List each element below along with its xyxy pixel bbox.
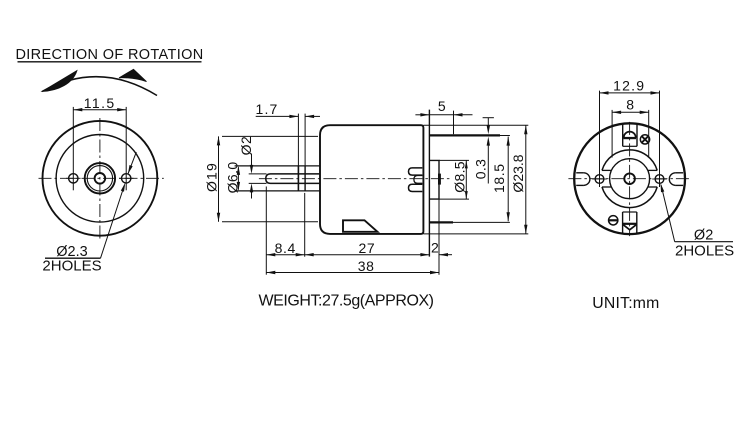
svg-text:2HOLES: 2HOLES — [675, 243, 734, 260]
washer/bushing boundary — [304, 166, 306, 191]
left notch bottom line — [576, 184, 583, 186]
Ø19 dim line — [218, 136, 220, 221]
bottom brush base bar — [623, 223, 637, 225]
svg-text:8: 8 — [626, 97, 634, 113]
upper band right end face — [648, 169, 657, 171]
bottom slot top edge — [623, 211, 637, 213]
0.3 upper arrow (down) — [487, 125, 490, 134]
rear Ø2 leader arrow — [661, 183, 665, 192]
rotation arrow arc — [42, 77, 157, 96]
1.7 right tail — [305, 115, 320, 117]
0.3 upper leader — [487, 118, 489, 127]
Ø19 bottom extension — [222, 221, 318, 223]
svg-text:UNIT:mm: UNIT:mm — [592, 295, 659, 312]
8 dim line — [612, 111, 649, 113]
svg-text:0.3: 0.3 — [473, 159, 489, 179]
right hole crosshair — [119, 177, 134, 179]
8 right extension — [648, 110, 650, 158]
front right mounting hole — [122, 174, 131, 183]
left notch arc — [584, 173, 590, 186]
top terminal extension thin — [500, 135, 510, 137]
top brush base bar — [623, 137, 636, 139]
Ø8.5 dim line — [465, 160, 467, 199]
extension line boss right edge down — [438, 199, 440, 275]
lower band right end face — [648, 186, 657, 188]
2 arrow — [439, 253, 448, 256]
rear clip bottom bump — [409, 184, 423, 191]
front view outer circle — [43, 121, 158, 236]
12.9 right extension through hole — [659, 91, 661, 187]
12.9 dim line — [600, 92, 660, 94]
Ø2 extension bottom — [249, 182, 267, 184]
Ø2.3 label underline — [45, 257, 101, 259]
rotation arrow left head — [42, 71, 77, 92]
svg-text:WEIGHT:27.5g(APPROX): WEIGHT:27.5g(APPROX) — [259, 292, 434, 309]
1.7 right arrow — [305, 115, 314, 118]
top slot bottom edge — [623, 145, 637, 147]
18.5 bottom arrow — [507, 212, 510, 221]
Ø2 extension top — [249, 173, 267, 175]
extension shaft tip down — [265, 187, 267, 275]
Ø2.3 leader line upper — [128, 152, 136, 173]
Ø23.8 top arrow — [524, 125, 527, 134]
left hole crosshair — [66, 177, 81, 179]
vent slot trapezoid — [343, 220, 378, 232]
rear Ø2 label underline — [675, 241, 733, 243]
Ø2 upper arrow (down) — [250, 165, 253, 174]
Ø6 top arrow — [237, 166, 240, 175]
bushing bottom line + Ø6 extension — [235, 190, 320, 192]
8.4 left arrow — [266, 253, 275, 256]
hub outer circle — [85, 163, 115, 193]
8.4 right arrow — [296, 253, 305, 256]
5 right arrow — [454, 113, 463, 116]
18.5 top arrow — [507, 137, 510, 146]
svg-text:Ø19: Ø19 — [203, 162, 219, 192]
front view vertical centerline — [99, 118, 101, 239]
svg-text:2HOLES: 2HOLES — [42, 258, 101, 275]
Ø2.3 upper leader arrow — [128, 165, 133, 174]
bottom tab thick — [429, 221, 453, 223]
12.9 left arrow — [600, 91, 609, 94]
rotation arrow right head — [119, 69, 147, 81]
left notch top line — [576, 172, 583, 174]
lower band left end face — [602, 186, 611, 188]
shaft circle — [95, 173, 106, 184]
hub inner ring — [87, 166, 112, 191]
rear view vertical centerline — [629, 122, 631, 236]
dim line 8.4 and 27 — [266, 254, 429, 256]
dim 11.5 line — [73, 109, 126, 111]
svg-text:38: 38 — [358, 258, 375, 274]
dim 11.5 right extension — [125, 107, 127, 190]
svg-text:5: 5 — [438, 98, 446, 114]
bottom brush chevron — [623, 225, 636, 230]
5 left tail — [415, 114, 429, 116]
upper band left end face — [602, 169, 611, 171]
Ø6 bottom arrow — [237, 182, 240, 191]
phillips cross stroke 2 — [642, 136, 648, 142]
Ø2 lower arrow (up) — [250, 183, 253, 192]
Ø8.5 bottom arrow — [465, 191, 468, 199]
5 dim line — [429, 114, 453, 116]
rear view outer circle — [574, 123, 685, 234]
extension bushing face down — [304, 193, 306, 257]
rear boss Ø8.5 — [429, 160, 439, 199]
body top line extension right — [423, 124, 528, 126]
top slot left edge — [622, 124, 624, 147]
svg-text:8.4: 8.4 — [275, 240, 296, 256]
rear left hole crosshair — [592, 178, 607, 180]
svg-text:Ø8.5: Ø8.5 — [452, 161, 468, 193]
svg-text:2: 2 — [431, 239, 439, 255]
Ø19 top extension — [222, 135, 318, 137]
18.5 dim line — [507, 137, 509, 222]
shaft rear end bar — [438, 174, 441, 185]
38 left arrow — [266, 271, 275, 274]
rear view horizontal centerline — [568, 178, 691, 180]
right notch top line — [676, 172, 684, 174]
38 right arrow — [430, 271, 439, 274]
1.7 left tail — [256, 115, 299, 117]
8 left extension — [611, 110, 613, 158]
8 left arrow — [612, 111, 621, 114]
Ø8.5 top extension — [439, 159, 469, 161]
Ø19 top arrow — [217, 136, 220, 145]
Ø8.5 bottom extension — [439, 198, 469, 200]
5 left arrow — [420, 113, 429, 116]
phillips screw circle — [640, 135, 649, 144]
phillips cross stroke 1 — [642, 136, 648, 142]
title underline — [18, 61, 202, 63]
5 right extension — [453, 111, 455, 135]
svg-text:Ø6.0: Ø6.0 — [225, 161, 241, 193]
Ø8.5 top arrow — [465, 160, 468, 168]
middle view centerline — [259, 178, 450, 180]
rear shaft hole — [624, 173, 635, 184]
27 right arrow — [420, 253, 429, 256]
2 right tail — [439, 254, 452, 256]
Ø23.8 dim line — [525, 125, 527, 234]
1.7 left extension (washer edge up) — [297, 114, 299, 166]
Ø19 bottom arrow — [217, 213, 220, 222]
shaft with rounded tip — [266, 174, 320, 184]
0.3 top tick bar — [483, 117, 494, 119]
Ø2 dim lower leader — [251, 190, 253, 199]
rear right Ø2 hole — [655, 175, 664, 184]
bushing top line + Ø6 extension — [235, 165, 320, 167]
0.3 lower arrow (up) — [487, 137, 490, 146]
12.9 right arrow — [651, 91, 660, 94]
svg-text:12.9: 12.9 — [613, 78, 645, 94]
washer left edge — [297, 166, 299, 191]
svg-text:Ø2: Ø2 — [238, 136, 254, 156]
right notch arc — [669, 173, 675, 186]
rear bearing boss circle — [610, 159, 650, 199]
27 left arrow — [305, 253, 314, 256]
motor body side view — [320, 125, 423, 234]
bottom slot right edge — [636, 212, 638, 234]
bottom tab extension thin — [453, 221, 510, 223]
svg-text:1.7: 1.7 — [255, 101, 278, 117]
end cap right edge + extensions — [428, 110, 430, 257]
dim 11.5 left extension — [72, 107, 74, 190]
bottom slot left edge — [622, 212, 624, 234]
front view inner circle — [56, 135, 144, 223]
right notch bottom line — [676, 184, 684, 186]
5 right tail — [454, 114, 473, 116]
svg-text:Ø23.8: Ø23.8 — [510, 154, 526, 192]
rear Ø2 leader line — [661, 185, 675, 242]
slotted screw slot — [609, 219, 618, 221]
front view horizontal centerline — [39, 177, 164, 179]
svg-text:11.5: 11.5 — [84, 95, 116, 111]
0.3 lower leader — [487, 145, 489, 184]
Ø2.3 leader line lower — [101, 186, 125, 259]
svg-text:18.5: 18.5 — [491, 163, 507, 193]
svg-text:Ø2: Ø2 — [694, 228, 713, 244]
Ø23.8 bottom arrow — [524, 225, 527, 234]
rear left Ø2 hole — [595, 175, 604, 184]
Ø6 dim line — [237, 167, 239, 189]
rear clip middle notch — [414, 176, 422, 184]
rear right hole crosshair — [652, 178, 667, 180]
lower band outer arc — [602, 187, 657, 208]
svg-text:27: 27 — [359, 240, 376, 256]
top slot right edge — [636, 124, 638, 147]
top terminal tab thick — [429, 134, 500, 136]
1.7 left arrow — [289, 115, 298, 118]
rear clip top bump — [409, 168, 423, 175]
dim line 38 — [266, 272, 439, 274]
Ø2.3 leader arrow at hole — [121, 183, 126, 192]
12.9 left extension through hole — [599, 91, 601, 187]
slotted screw circle — [609, 216, 618, 225]
front left mounting hole — [69, 174, 78, 183]
1.7 right extension — [304, 114, 306, 166]
upper band outer arc — [602, 150, 657, 171]
dim 11.5 left arrow — [73, 108, 82, 111]
Ø2 dim upper leader — [251, 154, 253, 168]
top brush dome arc — [624, 132, 636, 138]
dim 11.5 right arrow — [117, 108, 126, 111]
body bottom line extension right — [423, 233, 528, 235]
svg-text:DIRECTION OF ROTATION: DIRECTION OF ROTATION — [15, 47, 203, 63]
8 right arrow — [640, 111, 649, 114]
